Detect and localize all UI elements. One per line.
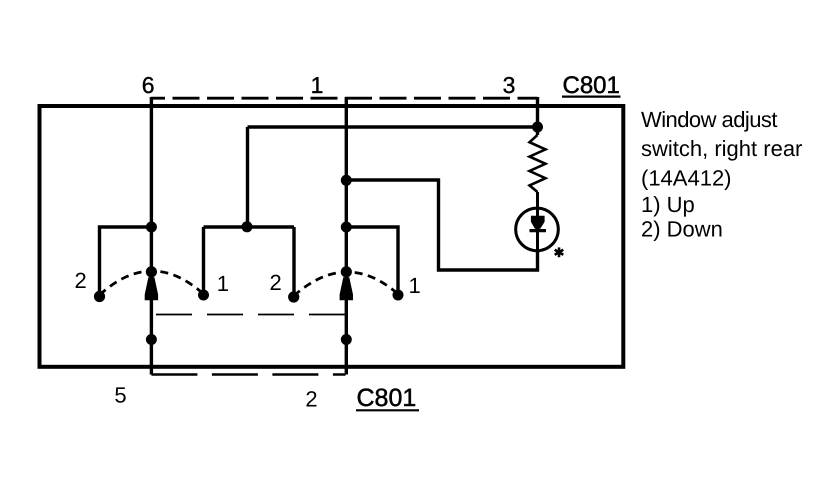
node: middle bracket junction bbox=[242, 221, 253, 232]
node: switch A pivot bbox=[146, 266, 157, 277]
svg-text:2: 2 bbox=[269, 270, 281, 295]
switch A dashed travel arc bbox=[100, 271, 204, 295]
svg-text:C801: C801 bbox=[357, 384, 417, 412]
wire resistor to lamp bbox=[536, 192, 539, 270]
wire pin 1 vertical (switch B common, to pin 2) bbox=[345, 97, 348, 375]
wire middle bracket horizontal bbox=[204, 225, 295, 228]
svg-text:C801: C801 bbox=[563, 72, 620, 99]
lamp filament bbox=[531, 216, 545, 229]
svg-text:2) Down: 2) Down bbox=[641, 216, 723, 241]
lamp (illumination bulb) circle bbox=[516, 208, 559, 251]
svg-text:2: 2 bbox=[305, 387, 317, 412]
node: switch B pivot bbox=[341, 266, 352, 277]
node: switch A bracket junction bbox=[146, 222, 157, 233]
wire middle bracket vertical bbox=[246, 127, 249, 227]
svg-text:2: 2 bbox=[74, 268, 86, 293]
component box: window adjust switch outline bbox=[40, 106, 624, 367]
connector C801 bottom dashed line bbox=[151, 373, 345, 375]
svg-text:5: 5 bbox=[114, 383, 126, 408]
node: lamp return junction bbox=[341, 175, 352, 186]
node: switch B contact 1 bbox=[393, 290, 404, 301]
svg-text:Window adjust: Window adjust bbox=[641, 107, 777, 132]
svg-text:1: 1 bbox=[311, 72, 324, 98]
switch A wiper arrow bbox=[145, 277, 158, 300]
wire switch A bracket to contact 2 bbox=[100, 227, 152, 297]
svg-text:1: 1 bbox=[217, 271, 229, 296]
connector C801 top dashed line bbox=[151, 97, 538, 100]
connector C801 top right tick bbox=[536, 98, 539, 106]
connector C801 top label underline bbox=[562, 95, 621, 97]
node: switch A contact 2 bbox=[94, 291, 105, 302]
wire feed horizontal (bracket top to pin 3 node) bbox=[248, 125, 538, 128]
switch B wiper arrow bbox=[340, 277, 353, 300]
node: resistor feed junction bbox=[532, 122, 543, 133]
svg-text:switch, right rear: switch, right rear bbox=[641, 136, 802, 161]
resistor bbox=[530, 135, 546, 192]
node: switch B common lower bbox=[341, 334, 352, 345]
lamp filament crossbar bbox=[530, 229, 547, 232]
wire pin 6 vertical (switch A common, to pin 5) bbox=[150, 97, 153, 375]
svg-text:(14A412): (14A412) bbox=[641, 166, 732, 191]
asterisk footnote mark bbox=[555, 247, 564, 257]
node: switch A contact 1 bbox=[198, 290, 209, 301]
switch B dashed travel arc bbox=[294, 272, 398, 296]
annotation text: component description bbox=[641, 107, 802, 241]
wire stub to switch A contact 1 bbox=[202, 227, 205, 295]
wire pin 3 vertical to resistor bbox=[536, 97, 539, 135]
wire lamp return (node at switch B to lamp bottom) bbox=[346, 180, 537, 270]
wire switch B bracket to contact 1 bbox=[346, 227, 398, 295]
node: switch B contact 2 bbox=[288, 291, 299, 302]
wire stub to switch B contact 2 bbox=[292, 227, 295, 297]
svg-text:3: 3 bbox=[503, 72, 516, 98]
connector C801 bottom label underline bbox=[356, 409, 419, 411]
mechanical link dashed line between switch commons bbox=[151, 314, 346, 316]
svg-text:6: 6 bbox=[142, 72, 155, 98]
svg-text:1: 1 bbox=[408, 273, 420, 298]
node: switch A common lower bbox=[146, 334, 157, 345]
svg-text:1) Up: 1) Up bbox=[641, 192, 695, 217]
node: switch B bracket junction bbox=[341, 222, 352, 233]
